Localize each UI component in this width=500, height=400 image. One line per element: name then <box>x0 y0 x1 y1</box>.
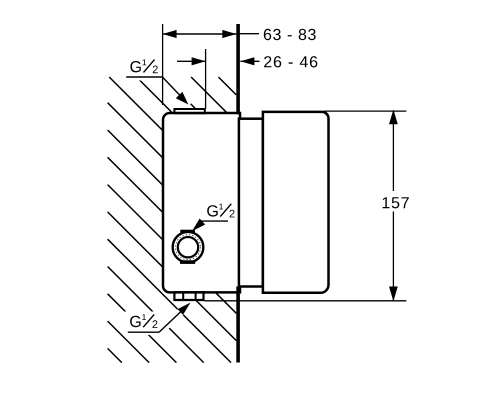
halo behind bottom G1/2 leader <box>159 305 189 333</box>
spindle step between wall and cover <box>239 119 263 287</box>
bottom fitting facet line 2 <box>195 292 197 300</box>
dimension text 26-46 <box>264 56 317 67</box>
wall face line upper segment <box>236 24 240 114</box>
top G1/2 label text <box>130 59 157 73</box>
side connection top tab <box>180 230 195 233</box>
valve body (rough-in) <box>163 113 240 292</box>
arrowhead pointing right at 26-46 <box>192 57 206 65</box>
bottom G1/2 label text <box>130 314 157 328</box>
middle G1/2 underline <box>201 220 229 222</box>
arrowhead down of 157 <box>389 287 398 302</box>
middle G1/2 arrowhead <box>192 219 205 232</box>
body bottom edge across fitting <box>174 291 206 294</box>
tail line to 26-46 text <box>240 60 259 62</box>
halo behind 157 text <box>379 191 413 212</box>
arrowhead left of 63-83 <box>163 30 177 38</box>
tail line to 63-83 text <box>236 33 259 35</box>
side connection thread ring <box>176 235 201 260</box>
extension line top for 157 <box>324 110 406 112</box>
side connection inner circle <box>178 237 198 257</box>
dimension line left part 26-46 <box>177 60 206 62</box>
arrowhead up of 157 <box>389 110 398 125</box>
dimension line 63-83 <box>163 33 237 35</box>
arrowhead pointing left at wall for 26-46 <box>240 57 254 65</box>
extension line for 63-83 at body left <box>162 24 164 105</box>
arrowhead right of 63-83 <box>222 30 236 38</box>
halo behind top G1/2 leader <box>162 77 189 106</box>
side connection outer circle <box>173 232 204 263</box>
bottom connection fitting G1/2 <box>174 292 203 300</box>
extension line for 26-46 at fitting <box>205 49 207 109</box>
dimension text 157 <box>383 197 409 208</box>
halo behind bottom G1/2 label <box>124 312 164 336</box>
bottom G1/2 underline <box>128 331 159 333</box>
middle G1/2 label text <box>207 204 234 218</box>
dimension line 157 vertical <box>392 111 394 301</box>
cover plate / escutcheon <box>263 112 329 293</box>
bottom fitting facet line 1 <box>182 292 184 300</box>
wall section hatching <box>108 77 237 363</box>
top G1/2 leader <box>162 77 181 97</box>
top G1/2 arrowhead <box>176 92 189 105</box>
bottom G1/2 arrowhead <box>178 303 191 315</box>
extension line bottom for 157 <box>205 300 407 302</box>
body top edge across fitting <box>174 112 206 115</box>
top connection fitting G1/2 <box>174 109 204 114</box>
dimension text 63-83 <box>264 29 316 40</box>
halo behind top G1/2 label <box>124 56 165 81</box>
wall face line lower segment <box>236 287 240 363</box>
top G1/2 underline <box>126 76 162 78</box>
side connection bottom tab <box>180 260 195 264</box>
bottom G1/2 leader <box>159 311 182 332</box>
